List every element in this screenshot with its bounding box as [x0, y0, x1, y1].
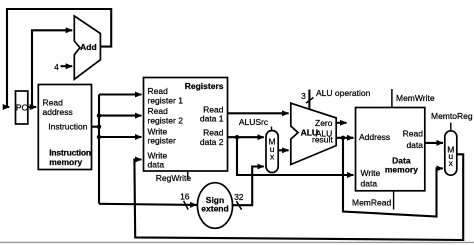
svg-text:data 1: data 1 — [200, 114, 224, 124]
node: ALU result junction — [341, 136, 345, 140]
ALU unit — [291, 103, 336, 164]
node: bus junction at write register — [97, 135, 101, 139]
wire: ALU result to data memory address — [336, 137, 353, 139]
svg-text:Read: Read — [148, 106, 169, 116]
svg-text:Instruction: Instruction — [49, 147, 91, 157]
svg-text:result: result — [312, 135, 333, 145]
node: bus junction at read register 2 — [97, 113, 101, 117]
wire: read data output to MemtoReg mux — [424, 142, 443, 144]
svg-text:x: x — [449, 158, 454, 168]
wire: MemtoReg control into mux — [450, 123, 452, 131]
svg-text:3: 3 — [301, 91, 306, 101]
svg-text:x: x — [270, 151, 275, 161]
instruction memory box — [38, 85, 91, 170]
svg-text:Read: Read — [148, 86, 169, 96]
svg-text:register 1: register 1 — [148, 96, 184, 106]
slash: 32-bit width mark — [236, 201, 241, 210]
node: PC output junction — [30, 105, 34, 109]
svg-text:extend: extend — [201, 204, 228, 214]
data memory box — [356, 108, 425, 191]
svg-text:address: address — [43, 107, 73, 117]
wire: PC feedback loop (Add output to PC input) — [7, 9, 111, 107]
wire: PC output to instruction memory — [32, 106, 36, 108]
wire: MemWrite control into data memory — [391, 89, 393, 108]
wire: bus down to sign extend — [99, 204, 197, 205]
svg-text:Zero: Zero — [315, 118, 333, 128]
svg-text:Add: Add — [80, 42, 97, 52]
svg-text:Address: Address — [359, 132, 390, 142]
wire: ALUSrc mux output to ALU — [278, 149, 288, 151]
sign extend unit — [197, 183, 232, 229]
svg-text:data: data — [406, 140, 423, 150]
node: read data 2 junction — [235, 135, 239, 139]
registers box — [144, 78, 228, 172]
wire: ALU result bypass to MemtoReg mux — [343, 138, 443, 217]
svg-text:memory: memory — [385, 164, 418, 174]
wire: bus to Read register 1 — [99, 93, 142, 95]
wire: PC output up to Add top input — [32, 30, 72, 107]
svg-text:PC: PC — [16, 103, 28, 113]
wire: instruction output to bus — [92, 126, 100, 128]
svg-text:4: 4 — [54, 62, 59, 72]
mux ALUSrc — [266, 131, 278, 173]
wire: Zero output stub — [336, 122, 346, 124]
wire: 4 into Add bottom input — [61, 65, 73, 67]
wire: ALUSrc control into mux — [271, 127, 273, 131]
svg-text:Write: Write — [361, 168, 381, 178]
wire: PC output to instruction memory read address — [28, 106, 32, 108]
PC register box — [16, 91, 28, 124]
svg-text:Read: Read — [403, 129, 424, 139]
svg-text:register 2: register 2 — [148, 115, 184, 125]
scan artifact: bottom gray line — [0, 241, 474, 243]
wire: ALU operation control into ALU — [308, 90, 310, 110]
svg-text:MemRead: MemRead — [352, 198, 391, 208]
wire: read data 1 to ALU — [228, 112, 289, 114]
svg-text:Instruction: Instruction — [48, 122, 87, 132]
svg-text:MemWrite: MemWrite — [396, 93, 435, 103]
slash: 3-bit width mark — [306, 98, 314, 104]
wire: RegWrite control into registers — [187, 171, 189, 180]
svg-text:16: 16 — [180, 191, 190, 201]
svg-text:32: 32 — [234, 192, 244, 202]
svg-text:data: data — [148, 160, 165, 170]
wire: read data 2 to ALUSrc mux — [228, 136, 264, 138]
svg-text:RegWrite: RegWrite — [156, 173, 192, 183]
wire: sign extend output to ALUSrc mux — [232, 167, 264, 206]
wire: MemtoReg mux output write-back loop to registers write data — [134, 154, 463, 240]
wire: read data 2 down to data memory write data — [237, 137, 354, 175]
node: bus junction at instruction — [97, 125, 101, 129]
svg-text:data 2: data 2 — [200, 137, 224, 147]
svg-text:data: data — [361, 179, 378, 189]
adder Add — [74, 16, 100, 79]
wire: bus to Write register — [99, 136, 142, 138]
svg-text:MemtoReg: MemtoReg — [431, 111, 473, 121]
svg-text:ALUSrc: ALUSrc — [239, 117, 269, 127]
slash: 16-bit width mark — [184, 201, 189, 210]
wire: bus to Read register 2 — [99, 115, 142, 117]
svg-text:memory: memory — [49, 157, 82, 167]
svg-text:Read: Read — [43, 98, 64, 108]
svg-text:Read: Read — [203, 128, 224, 138]
mux MemtoReg — [445, 131, 457, 175]
svg-text:Registers: Registers — [185, 81, 224, 91]
wire: instruction bus vertical — [98, 95, 100, 204]
svg-text:register: register — [148, 136, 177, 146]
svg-text:ALU operation: ALU operation — [316, 88, 371, 98]
wire: MemRead control into data memory — [393, 191, 395, 210]
